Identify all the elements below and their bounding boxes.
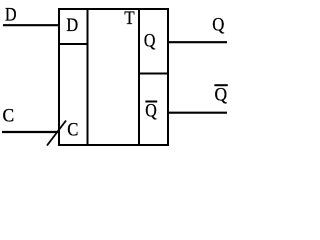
- svg-text:Q: Q: [212, 13, 224, 34]
- D box separator: [58, 43, 89, 45]
- svg-text:C: C: [3, 105, 15, 126]
- svg-text:T: T: [124, 7, 134, 28]
- svg-text:Q: Q: [215, 84, 228, 105]
- output section divider: [138, 8, 140, 146]
- input section divider: [87, 8, 89, 146]
- svg-text:D: D: [5, 3, 17, 25]
- wire Qbar output: [168, 112, 227, 114]
- wire D input: [3, 24, 59, 26]
- Q/Qbar separator: [138, 73, 169, 75]
- wire Q output: [168, 41, 227, 43]
- svg-text:Q: Q: [144, 29, 156, 51]
- svg-text:C: C: [67, 118, 78, 139]
- node label Qbar: [214, 84, 227, 105]
- svg-text:D: D: [66, 14, 78, 35]
- wire C input: [2, 131, 60, 133]
- edge-trigger slash: [47, 121, 66, 146]
- flip-flop body U1 outline: [59, 9, 168, 145]
- pin label Qbar: [145, 99, 157, 121]
